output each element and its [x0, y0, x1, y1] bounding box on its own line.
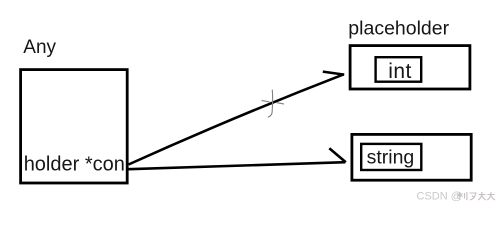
- string inner box: [361, 144, 421, 170]
- Any box: [21, 70, 128, 183]
- int outer box: [350, 46, 470, 89]
- svg-text:int: int: [388, 60, 411, 83]
- wire: arrow shaft to int box: [129, 74, 344, 164]
- int inner box: [376, 57, 422, 81]
- svg-text:holder *con: holder *con: [24, 154, 125, 176]
- wire: arrow shaft to string box: [129, 162, 346, 169]
- arrowhead (lower arrow): [329, 148, 346, 162]
- watermark glyph 大 (1): [478, 192, 486, 200]
- watermark glyph 刃: [470, 193, 477, 200]
- svg-text:string: string: [367, 147, 415, 169]
- string outer box: [352, 134, 471, 180]
- watermark glyph 大 (2): [487, 192, 495, 200]
- arrowhead (upper arrow): [323, 72, 344, 75]
- svg-text:placeholder: placeholder: [348, 17, 449, 39]
- svg-text:Any: Any: [23, 37, 56, 58]
- cross tick mark on upper arrow: [262, 90, 284, 117]
- svg-text:CSDN @: CSDN @: [417, 191, 462, 203]
- watermark glyph 利: [457, 192, 467, 200]
